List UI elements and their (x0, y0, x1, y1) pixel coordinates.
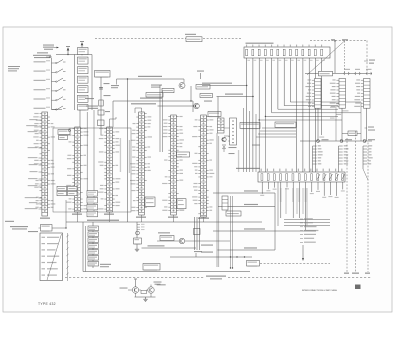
test point TP circle (136, 231, 140, 235)
wire inten corner down (127, 78, 128, 79)
labels at dashed line ends (344, 273, 349, 274)
wire from sweep area down (192, 101, 194, 112)
wire long vertical left of S5 (159, 85, 161, 152)
note text top-left margin (8, 66, 20, 67)
DELAY PICKOFF (95, 71, 111, 78)
label above color box (28, 231, 38, 232)
main interconnect bus DC VOLTS (66, 221, 262, 223)
coax connector J104 (366, 69, 372, 75)
wire column right rail (91, 55, 93, 111)
connector ladder J102 pins (330, 79, 346, 109)
wire pair down right of J6 (216, 133, 218, 267)
label at left page edge (5, 221, 14, 222)
label left of Q4 (120, 288, 128, 289)
label Q2 (204, 101, 212, 102)
wire emitter rail (135, 296, 156, 298)
label V DELAY text (151, 85, 162, 86)
wire vertical x278 (277, 182, 279, 226)
vertical wire labels (rotated text) under P2 (285, 188, 307, 226)
dashed wire from pulse gen right (260, 263, 330, 265)
labels SEL right of dashed (369, 60, 375, 61)
wire column left rail (74, 55, 76, 111)
bx4 (68, 191, 78, 195)
label P/O SWEEP GEN (85, 98, 94, 99)
label box CRT CKT (186, 37, 202, 42)
cable color code box (40, 233, 63, 281)
svg-text:TYPE 432: TYPE 432 (38, 302, 56, 306)
wire pair x230 down with dots (230, 196, 232, 268)
switch assembly outline box (53, 128, 131, 212)
wire hook at J4 top (141, 108, 143, 112)
power flag +12V near connector (200, 73, 202, 79)
gtp (135, 247, 139, 252)
p12v (41, 225, 53, 232)
pin labels above row (261, 169, 343, 172)
wire sweep corner down (112, 101, 114, 127)
gratbox (143, 264, 160, 271)
label TO GRID SUPPLY (33, 55, 51, 56)
cable lacing line with hatches (66, 233, 68, 281)
wire Q4 top feed (135, 280, 137, 287)
label under strip J1 (40, 218, 50, 219)
label EXT CRT CATHODE note (43, 45, 54, 46)
labels RESET rows (201, 245, 213, 246)
wire stubs strip bottoms to bus (78, 212, 204, 222)
connector comb J20 pins (313, 145, 323, 164)
PCB edge connector P1 (top) (244, 45, 330, 58)
chassis connector row line (305, 73, 372, 75)
label P2 POWER CONNECTOR (236, 168, 260, 169)
connector ladder J5 (small) (218, 118, 225, 133)
wire SW HORIZ DISPLAY (142, 247, 197, 249)
label on bundle wire (252, 145, 260, 146)
indicator circle (68, 129, 70, 131)
rotated wire label 1 (120, 138, 121, 172)
wire arrow from label A (54, 47, 58, 49)
contrast (226, 211, 241, 216)
wire inten left terminal (116, 79, 118, 85)
wires below power row (260, 182, 345, 230)
wire between transistors (139, 289, 141, 291)
diode CR1 (98, 110, 104, 115)
wire SWP OUT line to horiz (202, 85, 247, 87)
connector strip J6 (192, 115, 214, 217)
wire corner to pulse box (195, 253, 197, 257)
LVPS (275, 122, 296, 128)
bx2 (68, 186, 78, 190)
lum2 (59, 136, 68, 140)
dashed CRT circuit boundary line (95, 38, 241, 40)
Q4 (132, 287, 138, 293)
wire column down (79, 110, 81, 128)
wire +LAMP VOLT (217, 96, 254, 98)
CRT circuit label box (185, 34, 196, 35)
label CRT CONNECTOR on dashed line (206, 276, 226, 277)
s4box (145, 197, 155, 207)
junction box on J6 bundle (194, 229, 201, 235)
ticks on test chain (137, 224, 145, 230)
junction cluster below power row (284, 220, 330, 226)
dashed chassis line right 1 (346, 138, 348, 272)
neon indicator column V1 (78, 48, 89, 103)
wire hook at J3 top (109, 119, 111, 127)
wire INTEN line to CRT (117, 78, 185, 80)
rotary switch bank SW1 trigger source (34, 58, 66, 110)
wire ladder J103 down (366, 108, 368, 141)
wiring list labels right (300, 218, 318, 243)
wire vertical x275 linking signals (274, 193, 276, 250)
CRT socket ladder J101 pins (305, 79, 321, 109)
Q1 (179, 83, 185, 89)
connector comb J21 pins (339, 145, 349, 164)
power bar at lamp feed (134, 278, 137, 280)
label under strip J2 (72, 214, 82, 215)
wire stack to low voltage supply (256, 128, 296, 137)
dashed boundary vertical mid (344, 41, 346, 73)
coax connector J103 (355, 69, 360, 75)
junction node A (190, 100, 191, 101)
Q2 (194, 103, 200, 109)
wire arrow from label B (46, 56, 52, 58)
wires ladder to box (224, 127, 230, 129)
wire down from list (302, 245, 304, 258)
delaydrv (160, 236, 174, 242)
label under strip J4 (136, 217, 146, 218)
label under strip J3 (104, 214, 114, 215)
bus label DC VOLTS AND WAVEFORMS (87, 220, 119, 221)
Q5 (148, 287, 154, 293)
arrow end (302, 258, 304, 261)
wire left into Q4 (128, 289, 132, 291)
wire bottom horizontal (83, 271, 250, 273)
PO DELAY (146, 93, 163, 98)
wire ladder J101 down (317, 108, 319, 141)
wire SW SWP OUT (213, 230, 316, 232)
switch section box column K1-K7 (88, 222, 99, 268)
SWPCKT (200, 94, 213, 98)
bx1 (57, 186, 67, 190)
wire vertical from dashed line (334, 41, 336, 73)
labels P/O bottom left (100, 264, 111, 265)
Q6 (222, 137, 226, 141)
pulsegen (247, 261, 260, 267)
lvbox1 (240, 123, 260, 130)
power flag +125V (80, 41, 84, 47)
switch section upper box group (87, 191, 98, 217)
component box with contacts (230, 118, 237, 145)
wire Q1 stub (183, 79, 185, 83)
power connector P2 pin row (258, 172, 345, 182)
bx3 (57, 191, 67, 195)
wire Q1 down bus (190, 86, 192, 101)
label box DELAY DRIVER (158, 232, 170, 233)
capacitor C1 on line (99, 87, 103, 89)
svg-text:INTERCONNECTIONS & SWITCHING: INTERCONNECTIONS & SWITCHING (302, 290, 337, 292)
wire test chain x137 (136, 222, 138, 247)
wire delay pickoff down (100, 77, 102, 135)
wire power box right (52, 227, 66, 229)
label under strip J5 (168, 217, 178, 218)
wire flag rail horizontal (56, 54, 92, 56)
j5rbox (177, 152, 190, 157)
label P/O CIRCUIT BOARD CONNECTOR (246, 43, 274, 44)
lum1 (58, 130, 70, 136)
connector strip J4 (130, 112, 152, 215)
connector strip J1 (vert inputs) (33, 112, 55, 216)
label SWEEP TO HORIZ AMP (131, 103, 156, 104)
dashed chassis bottom line (65, 277, 204, 279)
wire Q3 row (157, 240, 179, 242)
wire lamp volt down (217, 97, 219, 123)
wire bundle vertical helpers (244, 108, 257, 172)
wire SWEEP line (113, 100, 193, 102)
wire switch bank bottom (52, 109, 63, 111)
figure number block (355, 285, 361, 290)
connector strip J2 (switch wafer) (66, 127, 88, 212)
glamp (143, 297, 147, 302)
wire bus down-left pair (82, 222, 84, 272)
wire Q5 top (150, 285, 152, 287)
label SW label small (194, 251, 202, 252)
rotated wire label 3 at P2 (238, 150, 239, 172)
small box R2 (98, 120, 105, 126)
power flag +225V (66, 47, 70, 55)
wire bundle below J6 (195, 217, 200, 250)
connector circles on bus J2x (317, 140, 320, 143)
wire pair inside assembly 1 (86, 112, 88, 211)
dashed chassis line right 2 (355, 131, 357, 272)
test point label TP1 (331, 39, 335, 40)
wire VERT SIG (218, 206, 275, 208)
wire x66 vertical (65, 200, 67, 228)
dashed chassis line right 3 (367, 143, 369, 273)
diode CR2 below Q6 (222, 144, 226, 146)
J101box (319, 71, 333, 76)
resbox (348, 131, 357, 136)
rotated wire label 2 (129, 140, 130, 173)
wire parallel at 361 (360, 102, 362, 141)
wire sweep to horiz amp (158, 105, 197, 107)
TP cluster right (368, 127, 374, 128)
wire parallel at 336 (335, 108, 337, 141)
label box on wire y133 (342, 132, 361, 134)
TRIGCKT (196, 85, 210, 90)
wire comb J21 down (338, 164, 340, 172)
wire fan from P1 pins (246, 58, 361, 172)
wire pair inside assembly 2 (93, 110, 95, 211)
component box between Q4 Q5 (141, 290, 147, 293)
labels right of Q6 (229, 136, 237, 137)
wire ladder J102 down (341, 108, 343, 141)
wire BLANKING signal (213, 192, 275, 194)
box below col (78, 105, 89, 111)
VDELAY (162, 88, 174, 92)
wire horizontal bus at y141 (300, 140, 372, 142)
label under strip J6 (198, 218, 209, 219)
connector ladder J103 pins (354, 79, 370, 109)
mini ladder right of J6 (222, 196, 228, 210)
label + TRIG (37, 52, 48, 53)
wire comb J20 down to power row (312, 164, 314, 172)
connector strip J5 (162, 115, 184, 215)
labels right of feed (154, 282, 162, 283)
s5box (177, 199, 186, 210)
dashed CRT boundary right segment (310, 40, 367, 42)
label right of Q5 (157, 284, 166, 285)
coax connector J102 (344, 69, 350, 75)
left label at power box (10, 226, 28, 227)
connector comb J22 pins (363, 145, 373, 164)
wire SW INTEN (218, 249, 276, 251)
cable diagonal to CRT socket (307, 41, 345, 76)
dashed boundary vertical right (366, 41, 368, 74)
left margin signal labels (25, 119, 42, 209)
resistor R1 small box (99, 100, 103, 106)
diagonal comb J22 to dashed (363, 169, 368, 180)
wire comb J22 down (362, 164, 364, 169)
tpbox (134, 238, 142, 245)
connector strip J3 (switch wafer) (98, 127, 120, 212)
HORIZAMP (208, 112, 221, 118)
Q3 (179, 238, 185, 244)
